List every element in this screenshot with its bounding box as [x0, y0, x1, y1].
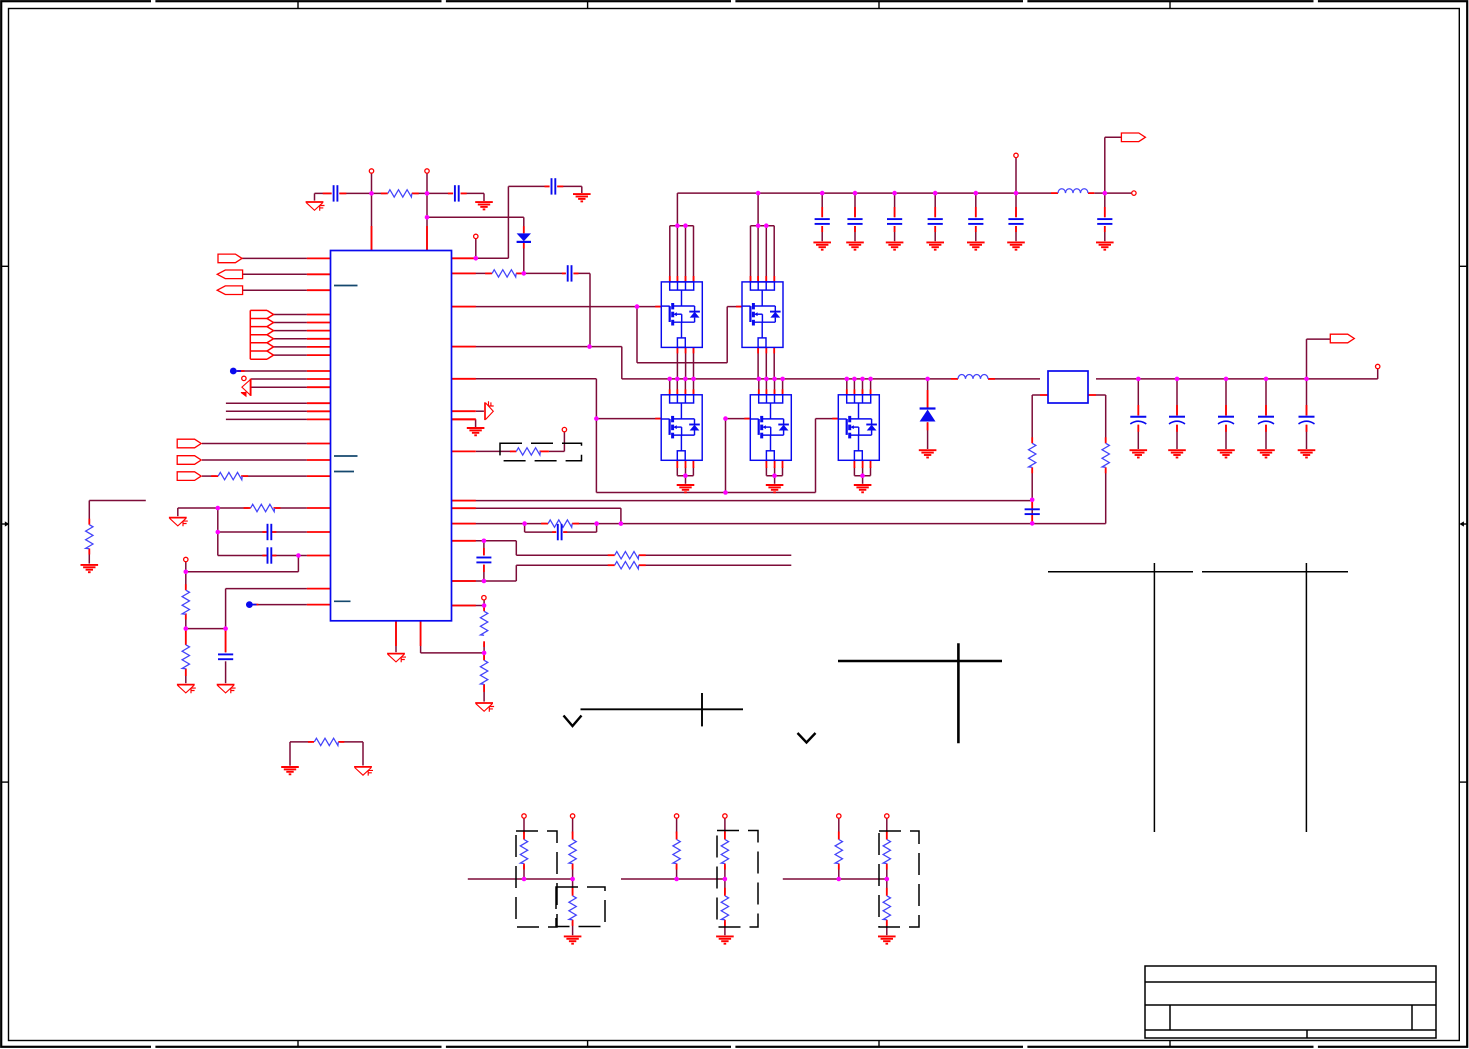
- ground: [1217, 450, 1235, 457]
- pin: [684, 389, 686, 395]
- pin: [238, 370, 245, 372]
- wire: [185, 669, 187, 684]
- power port: [242, 376, 246, 380]
- wire: [225, 661, 227, 683]
- wire: [886, 922, 888, 935]
- pin: [307, 354, 331, 356]
- ground: [217, 685, 236, 694]
- pin: [927, 422, 929, 430]
- pin: [934, 226, 936, 232]
- wire: [452, 378, 597, 380]
- pin: [886, 920, 888, 926]
- wire: [677, 192, 1051, 194]
- wire: [515, 541, 517, 555]
- resistor: [480, 660, 487, 684]
- pin: [371, 226, 373, 251]
- wire: [773, 226, 775, 282]
- junction: [184, 570, 189, 575]
- pin: [523, 832, 525, 840]
- power port: [184, 557, 188, 561]
- pin: [870, 460, 872, 468]
- pin: [1040, 394, 1048, 396]
- wire: [886, 879, 888, 894]
- wire: [724, 879, 726, 894]
- pin: [485, 272, 492, 274]
- wire: [1176, 425, 1178, 449]
- pin: [323, 192, 332, 194]
- wire: [894, 226, 896, 241]
- wire: [1096, 378, 1378, 380]
- wire: [676, 379, 678, 395]
- pin: [870, 389, 872, 395]
- wire: [724, 866, 726, 880]
- junction: [683, 377, 688, 382]
- wire: [816, 418, 839, 420]
- wire: [669, 379, 671, 395]
- pin: [951, 378, 958, 380]
- resistor: [314, 738, 338, 745]
- resistor: [569, 896, 576, 920]
- pin: [244, 507, 251, 509]
- wire: [226, 410, 307, 412]
- junction: [474, 256, 479, 261]
- wire: [178, 507, 249, 509]
- pin: [894, 207, 896, 217]
- current sense box T1: [1048, 371, 1088, 403]
- pin: [886, 888, 888, 896]
- junction: [635, 304, 640, 309]
- junction: [587, 344, 592, 349]
- cap C17 across pins: [476, 558, 491, 563]
- pin: [765, 460, 767, 468]
- wire: [185, 615, 187, 628]
- wire: [476, 410, 484, 412]
- wire: [862, 476, 864, 484]
- wire: [838, 866, 840, 880]
- pin: [185, 669, 187, 676]
- ground: [1257, 450, 1275, 457]
- pin: [693, 347, 695, 353]
- junction: [852, 377, 857, 382]
- wire: [846, 379, 848, 395]
- pin: [821, 226, 823, 232]
- pin: [927, 390, 929, 408]
- wire: [276, 507, 307, 509]
- junction: [482, 603, 487, 608]
- pin: [773, 276, 775, 282]
- pin: [307, 378, 331, 380]
- junction: [1014, 191, 1019, 196]
- junction: [772, 377, 777, 382]
- wire: [452, 605, 485, 607]
- pin: [1225, 405, 1227, 416]
- resistor: [182, 645, 189, 669]
- wire: [523, 818, 525, 833]
- wire: [685, 347, 687, 379]
- wire: [572, 879, 574, 894]
- pin: [1031, 467, 1033, 473]
- pin: [545, 185, 550, 187]
- wire: [886, 818, 888, 833]
- pin: [572, 523, 579, 525]
- capacitor: [887, 219, 902, 224]
- IC internal tick marks: [334, 286, 358, 602]
- wire: [1307, 338, 1331, 340]
- pin: [608, 564, 615, 566]
- wire: [237, 370, 307, 372]
- wire: [243, 289, 307, 291]
- pin: [782, 460, 784, 468]
- pin: [1176, 425, 1178, 432]
- wire: [726, 307, 728, 363]
- pin: [736, 306, 742, 308]
- wire: [549, 450, 565, 452]
- pin: [272, 531, 277, 533]
- ground: [81, 565, 99, 572]
- pin: [552, 531, 556, 533]
- wire: [483, 653, 485, 660]
- junction: [780, 377, 785, 382]
- wire: [1031, 469, 1033, 500]
- wire: [693, 226, 695, 282]
- pin: [886, 864, 888, 870]
- pin: [854, 207, 856, 217]
- wire: [782, 379, 784, 395]
- pin: [452, 500, 476, 502]
- wire: [243, 273, 307, 275]
- capacitor: [847, 219, 862, 224]
- wire: [620, 508, 622, 523]
- ground: [177, 685, 196, 694]
- pin: [307, 289, 331, 291]
- off-page connector (output): [177, 456, 201, 465]
- wire: [927, 379, 929, 408]
- capacitor: [218, 654, 233, 659]
- pin: [274, 507, 281, 509]
- wire: [596, 418, 661, 420]
- junction: [216, 530, 221, 535]
- pin: [557, 185, 563, 187]
- wire: [218, 531, 266, 533]
- wire: [862, 379, 864, 395]
- wire: [452, 257, 509, 259]
- pin: [758, 389, 760, 395]
- pin: [307, 330, 331, 332]
- wire: [821, 226, 823, 241]
- junction: [1264, 377, 1269, 382]
- wire: [1306, 425, 1308, 449]
- wire: [934, 193, 936, 217]
- wire: [854, 226, 856, 241]
- wire: [782, 467, 784, 476]
- junction: [1304, 377, 1309, 382]
- junction: [691, 377, 696, 382]
- wire: [765, 467, 767, 476]
- junction: [885, 877, 890, 882]
- junction: [667, 377, 672, 382]
- ground: [1130, 450, 1148, 457]
- pin: [757, 276, 759, 282]
- pin: [1015, 207, 1017, 217]
- wire: [975, 226, 977, 241]
- wire: [88, 551, 90, 564]
- pin: [272, 555, 277, 557]
- wire: [621, 878, 725, 880]
- wire: [1265, 379, 1267, 416]
- pin: [1015, 226, 1017, 232]
- pin: [381, 192, 388, 194]
- pin: [1306, 405, 1308, 416]
- wire: [622, 378, 951, 380]
- resistor: [569, 840, 576, 864]
- resistor: [548, 520, 572, 527]
- junction: [570, 877, 575, 882]
- pin: [412, 192, 419, 194]
- wire: [676, 866, 678, 880]
- capacitor: [268, 524, 272, 540]
- wire: [1105, 395, 1107, 441]
- wire: [1377, 369, 1379, 379]
- wire: [573, 272, 590, 274]
- pin: [307, 418, 331, 420]
- pin: [541, 523, 548, 525]
- junction: [853, 191, 858, 196]
- power port: [674, 814, 678, 818]
- power port: [522, 814, 526, 818]
- pin: [655, 306, 661, 308]
- power port: [425, 169, 429, 173]
- transistor (MOSFET module): [661, 282, 702, 348]
- pin: [773, 347, 775, 353]
- center arrow right: [1463, 523, 1468, 525]
- resistor: [516, 448, 540, 455]
- wire: [507, 186, 509, 258]
- wire: [1015, 226, 1017, 241]
- wire: [420, 621, 422, 653]
- power port: [837, 814, 841, 818]
- wire: [838, 818, 840, 833]
- wire: [774, 379, 776, 395]
- pin: [452, 507, 476, 509]
- wire: [934, 226, 936, 241]
- resistor: [480, 611, 487, 635]
- pin: [1137, 425, 1139, 432]
- wire: [572, 922, 574, 935]
- wire: [508, 185, 549, 187]
- capacitor: [815, 219, 830, 224]
- wire: [1137, 425, 1139, 449]
- junction: [845, 377, 850, 382]
- wire: [362, 742, 364, 766]
- probe symbol at pins: [241, 379, 251, 398]
- junction: [837, 877, 842, 882]
- junction: [675, 377, 680, 382]
- wire: [581, 186, 583, 193]
- pin: [461, 192, 467, 194]
- ground: [846, 242, 864, 249]
- pin: [724, 832, 726, 840]
- wire: [765, 379, 767, 395]
- resistor: [492, 270, 516, 277]
- capacitor (polarized): [1258, 417, 1274, 424]
- pin: [307, 443, 331, 445]
- pin: [1225, 425, 1227, 432]
- ground: [354, 767, 373, 776]
- capacitor: [1008, 219, 1023, 224]
- pin: [338, 741, 344, 743]
- wire: [1104, 226, 1106, 241]
- junction: [860, 473, 865, 478]
- power port: [723, 814, 727, 818]
- junction: [619, 521, 624, 526]
- wire: [274, 330, 307, 332]
- pin: [339, 192, 346, 194]
- pin: [510, 450, 516, 452]
- inductor: [1058, 189, 1088, 193]
- capacitor: [1025, 509, 1040, 514]
- pin: [452, 306, 476, 308]
- ground: [813, 242, 831, 249]
- pin: [307, 475, 331, 477]
- ground: [919, 450, 937, 457]
- pin: [523, 226, 525, 233]
- pin: [988, 378, 995, 380]
- wire: [886, 866, 888, 880]
- ground: [967, 242, 985, 249]
- resistor: [615, 552, 639, 559]
- wire: [572, 818, 574, 833]
- pin: [757, 347, 759, 353]
- pin: [483, 684, 485, 692]
- pin: [765, 389, 767, 395]
- junction: [756, 223, 761, 228]
- IC U1 main controller: [331, 251, 452, 621]
- wire: [724, 818, 726, 833]
- capacitor (polarized): [1169, 417, 1185, 424]
- pin: [1306, 425, 1308, 432]
- wire: [1265, 425, 1267, 449]
- pin: [862, 389, 864, 395]
- wire: [853, 379, 855, 395]
- wire: [516, 554, 612, 556]
- capacitor (polarized): [1130, 417, 1146, 424]
- wire: [185, 562, 187, 572]
- pin: [676, 389, 678, 395]
- pin: [307, 386, 331, 388]
- wire: [854, 193, 856, 217]
- wire: [774, 467, 776, 476]
- wire: [483, 643, 485, 653]
- wire: [641, 564, 792, 566]
- wire: [225, 629, 227, 653]
- pin: [307, 410, 331, 412]
- junction: [756, 191, 761, 196]
- ground: [854, 485, 872, 492]
- pin: [426, 226, 428, 251]
- junction: [482, 579, 487, 584]
- wire: [202, 475, 216, 477]
- wire: [315, 192, 332, 194]
- wire: [274, 322, 307, 324]
- wire: [1225, 425, 1227, 449]
- wire: [89, 500, 146, 502]
- wire: [274, 338, 307, 340]
- wire: [273, 555, 307, 557]
- off-page connector (output): [1121, 133, 1145, 142]
- wire: [783, 878, 887, 880]
- junction: [223, 626, 228, 631]
- pin: [724, 920, 726, 926]
- wire: [815, 419, 817, 493]
- pin: [1051, 192, 1058, 194]
- pin: [572, 920, 574, 926]
- ground: [485, 401, 494, 420]
- wire: [774, 476, 776, 484]
- wire: [202, 459, 307, 461]
- pin: [862, 460, 864, 468]
- pin: [853, 389, 855, 395]
- wire: [88, 501, 90, 523]
- pin: [307, 402, 331, 404]
- wire: [685, 467, 687, 476]
- wire: [483, 541, 485, 556]
- resistor: [86, 525, 93, 549]
- transistor (MOSFET module): [661, 395, 702, 461]
- pin: [516, 272, 523, 274]
- off-page connector (output): [177, 472, 201, 481]
- pin: [1105, 437, 1107, 443]
- pin: [1031, 501, 1033, 509]
- pin: [854, 226, 856, 232]
- power port: [474, 234, 478, 238]
- net stub dots (blue): [230, 368, 237, 375]
- pin: [241, 475, 248, 477]
- pin: [853, 460, 855, 468]
- pin: [483, 565, 485, 572]
- pin: [523, 243, 525, 249]
- pin: [452, 272, 476, 274]
- wire: [1137, 379, 1139, 416]
- wire: [894, 193, 896, 217]
- pin: [774, 460, 776, 468]
- wire: [725, 419, 727, 493]
- pin: [452, 523, 476, 525]
- pin: [452, 450, 476, 452]
- off-page connector (output): [1330, 334, 1354, 343]
- junction: [296, 553, 301, 558]
- wire: [677, 475, 693, 477]
- junction: [860, 377, 865, 382]
- junction: [723, 877, 728, 882]
- wire: [685, 226, 687, 282]
- pin: [1137, 405, 1139, 416]
- ground: [1096, 242, 1114, 249]
- capacitor: [558, 524, 562, 540]
- pin: [639, 564, 646, 566]
- pin: [655, 418, 661, 420]
- pin: [1176, 405, 1178, 416]
- resistor: [182, 590, 189, 614]
- junction: [594, 416, 599, 421]
- capacitor: [568, 265, 572, 281]
- wire: [1104, 193, 1106, 217]
- capacitor: [928, 219, 943, 224]
- pin: [185, 630, 187, 645]
- ground: [926, 242, 944, 249]
- power port: [1014, 153, 1018, 157]
- wire: [476, 450, 511, 452]
- wire: [226, 402, 307, 404]
